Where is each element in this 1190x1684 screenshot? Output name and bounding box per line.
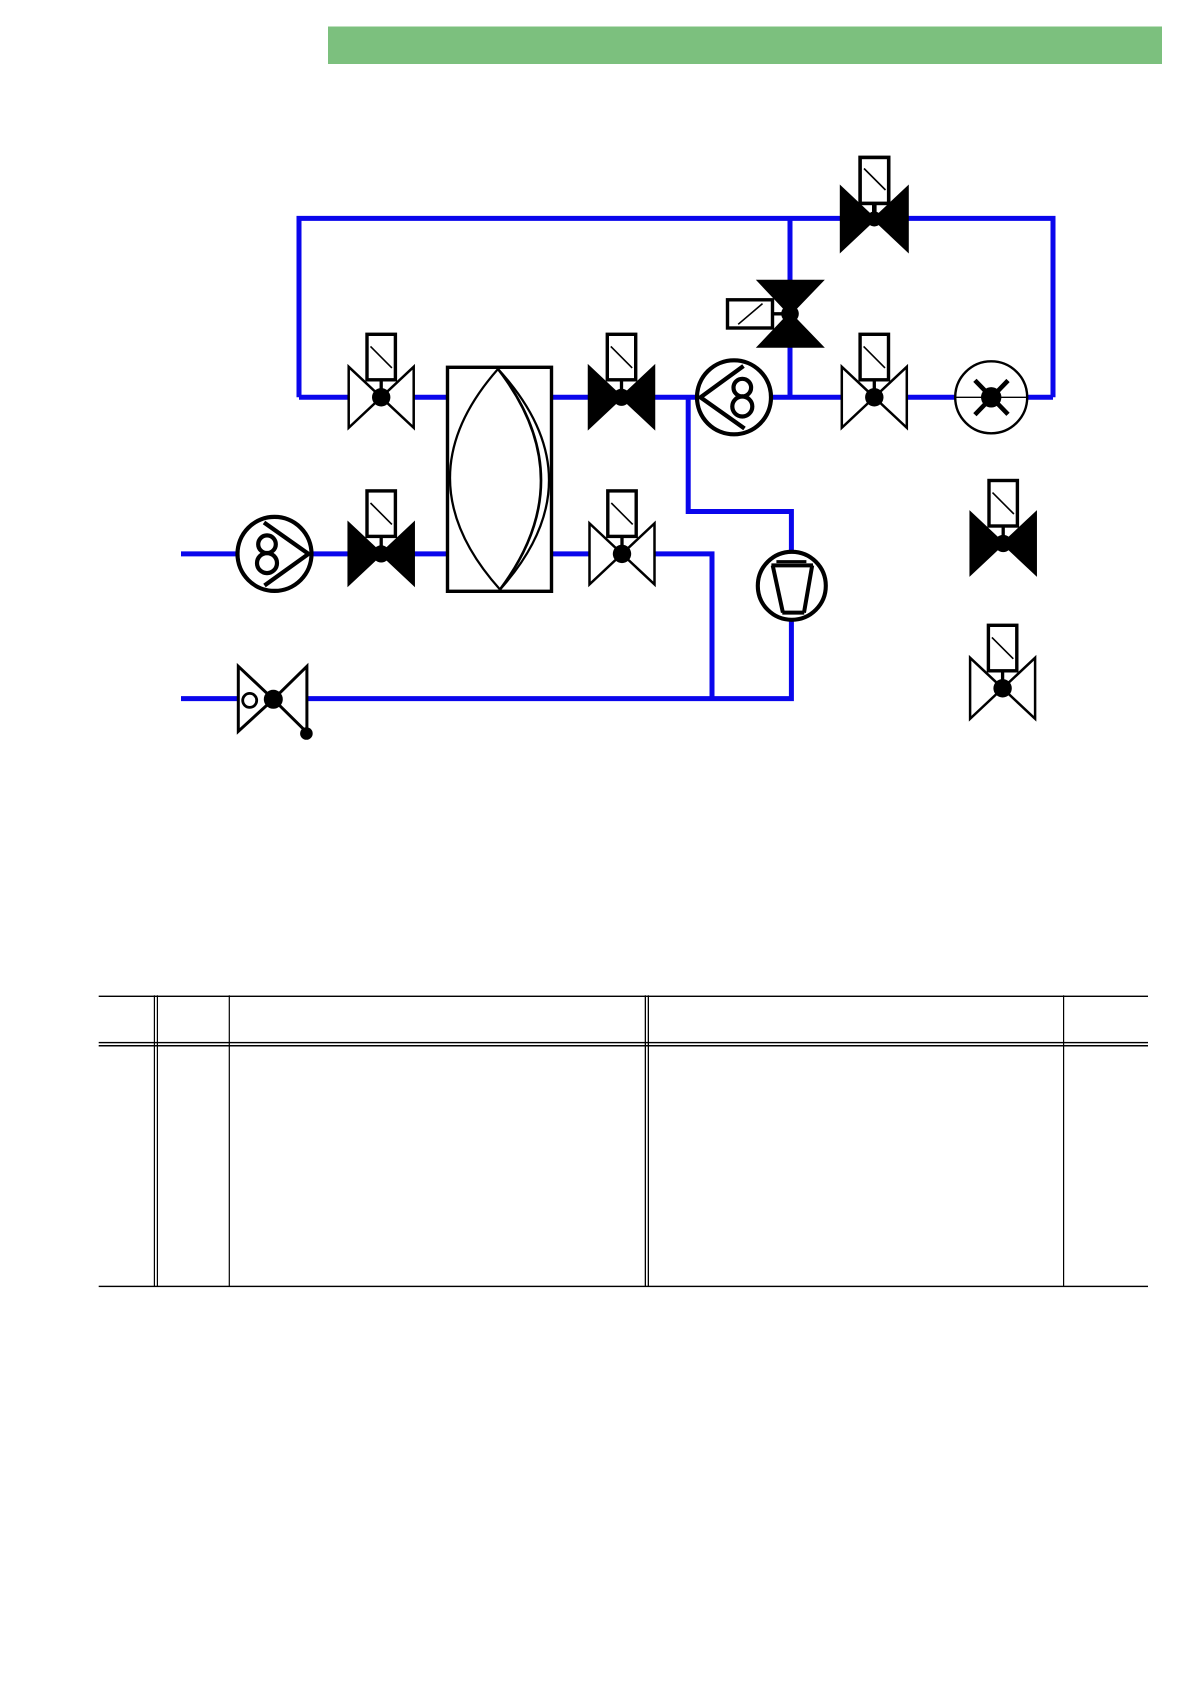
pipe: branch through 3-way valve <box>788 218 793 397</box>
table: vertical rule pair left <box>154 995 158 1287</box>
table: vertical rule right <box>1063 995 1064 1287</box>
pump P3 (circulation, pointing down) <box>758 552 826 620</box>
valve V7 (motorised valve, open, secondary supply after HX) <box>590 491 655 585</box>
pipe: secondary supply line <box>181 554 712 699</box>
table: header double rule (lower) <box>99 1045 1148 1047</box>
table: bottom rule <box>99 1286 1148 1287</box>
valve V5 (motorised valve, open, primary line after pump P1) <box>842 334 907 428</box>
valve V2 (3-way valve with side actuator) <box>728 281 822 346</box>
table: vertical rule pair centre <box>645 995 649 1287</box>
table: header top rule <box>99 996 1148 997</box>
table: header double rule (upper) <box>99 1042 1148 1043</box>
table: vertical rule column 2 <box>229 995 230 1287</box>
valve V4 (motorised valve, closed/black, primary line after HX) <box>589 334 654 428</box>
valve V6 (motorised valve, closed/black, secondary supply) <box>349 491 414 585</box>
pipe: secondary return line and bypass elbow with circulation pump <box>181 397 791 698</box>
control unit (circle with cross) <box>955 361 1027 433</box>
pipe: primary horizontal line <box>299 395 1053 400</box>
pipe: top supply loop <box>299 218 1053 397</box>
heat exchanger HX <box>448 367 552 591</box>
valve V9 (spare motorised valve, open, standalone) <box>970 625 1035 719</box>
valve V8 (spare motorised valve, closed/black, standalone) <box>971 481 1036 575</box>
green header bar <box>328 27 1162 65</box>
valve V3 (motorised valve, open, primary line before HX) <box>349 334 414 428</box>
valve V10 (balancing valve with drain, secondary return) <box>238 666 312 740</box>
pump P2 (secondary, pointing right) <box>238 517 312 591</box>
pump P1 (primary, pointing left) <box>697 360 771 434</box>
valve V1 (motorised shut-off, top right, closed/black) <box>841 157 907 250</box>
